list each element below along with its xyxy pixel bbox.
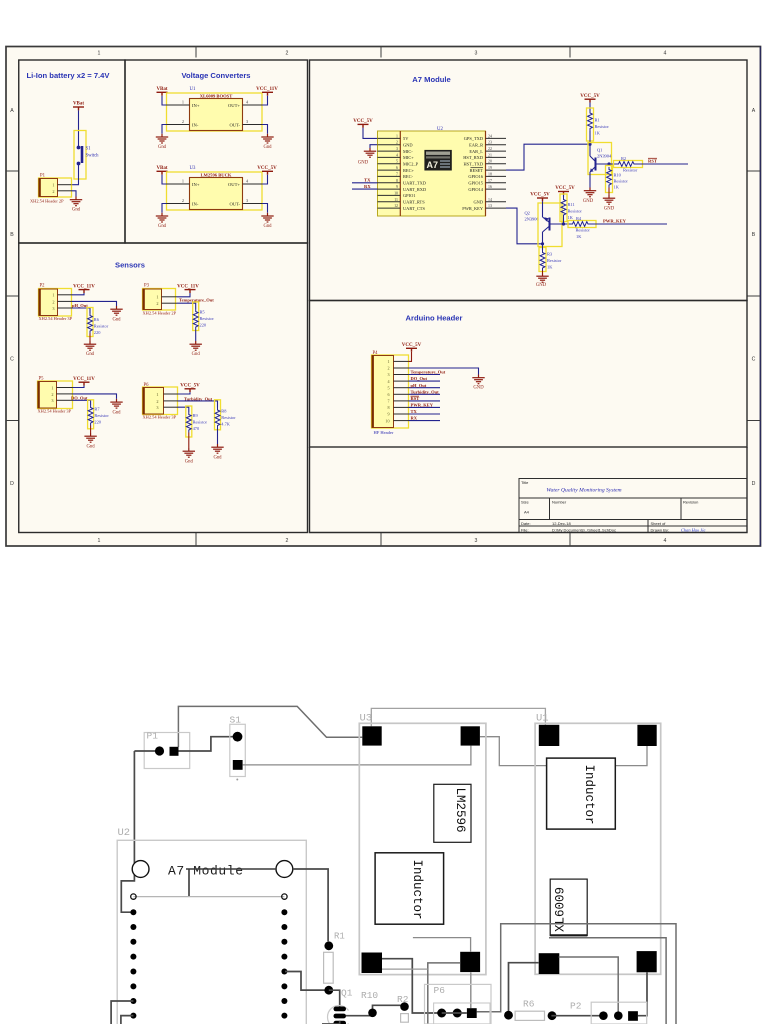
pad U1-4 (637, 951, 657, 972)
wire R1 to Q1 (589, 131, 591, 156)
svg-text:P2: P2 (570, 1001, 582, 1012)
svg-text:1: 1 (182, 100, 184, 105)
svg-text:UART_CTS: UART_CTS (403, 206, 425, 211)
svg-text:R3: R3 (547, 252, 553, 257)
svg-text:C: C (10, 357, 14, 363)
resistor R8 (215, 408, 220, 429)
ground under R5 (190, 341, 202, 350)
svg-text:GND: GND (358, 161, 369, 166)
svg-text:2: 2 (286, 538, 289, 544)
svg-text:GPIO15: GPIO15 (468, 181, 483, 186)
svg-text:Title: Title (521, 480, 529, 485)
svg-text:470: 470 (193, 426, 200, 431)
wire P4 pin3 (409, 374, 441, 376)
svg-text:12-Dec-18: 12-Dec-18 (552, 521, 571, 526)
wire P6 pin3 to R9 (178, 407, 189, 412)
svg-text:Sheet of: Sheet of (651, 521, 667, 526)
svg-text:18: 18 (488, 172, 492, 176)
zone tick right A|B (747, 170, 760, 172)
svg-text:pH_Out: pH_Out (72, 303, 88, 308)
wire VBat to U3 pin1 (162, 175, 167, 184)
silkscreen box Inductor U1 (547, 758, 616, 829)
pad P6-2 round (453, 1009, 462, 1018)
trace into P1 pad1 (134, 750, 159, 752)
pad P2-3 square (628, 1011, 638, 1021)
svg-text:VCC_11V: VCC_11V (177, 284, 199, 289)
U2 RESET overline (471, 167, 484, 169)
header P1 body (39, 179, 58, 197)
wire P4 pin9 (409, 413, 441, 415)
svg-text:R1: R1 (334, 932, 345, 942)
header P3 body (143, 289, 162, 310)
trace U1 pad3 to P2 pin2 (559, 957, 619, 1016)
header P1 pin1 stub (58, 184, 72, 186)
ground under P1 (70, 197, 82, 206)
wire P4 pin8 (409, 406, 441, 408)
svg-text:Gnd: Gnd (86, 352, 95, 357)
resistor R4 (horizontal) (570, 222, 591, 227)
svg-text:12: 12 (394, 204, 398, 208)
P6 body inner outline (434, 1003, 490, 1024)
svg-text:Temperature_Out: Temperature_Out (411, 370, 446, 375)
U2 left pin pads (130, 909, 136, 1018)
svg-text:Switch: Switch (86, 154, 100, 159)
svg-text:IN-: IN- (192, 123, 199, 128)
resistor R6 outline (515, 1011, 544, 1020)
svg-text:A: A (752, 108, 756, 114)
resistor R3 selection box (539, 248, 546, 272)
svg-text:A7 Module: A7 Module (168, 864, 244, 879)
U2 right pin stubs (486, 138, 507, 208)
svg-text:XH2.54 Header 2P: XH2.54 Header 2P (30, 199, 64, 204)
svg-text:VCC_11V: VCC_11V (256, 87, 278, 92)
XL6009 box bottom thick edge (551, 934, 588, 936)
svg-text:R10: R10 (614, 173, 622, 178)
svg-text:HST_RXD: HST_RXD (463, 155, 483, 160)
pad S1-1 round (233, 732, 243, 742)
svg-text:23: 23 (488, 141, 492, 145)
header P1 left edge (38, 179, 40, 197)
pad P6-3 square (467, 1008, 477, 1018)
svg-text:1: 1 (156, 295, 158, 300)
header P2 body (39, 289, 58, 316)
header P5 pin2 stub (57, 393, 73, 395)
svg-text:RST: RST (411, 396, 420, 401)
svg-text:Gnd: Gnd (112, 411, 121, 416)
svg-text:File:: File: (521, 527, 529, 532)
svg-text:6: 6 (387, 392, 389, 397)
header P6 pin numbers (156, 392, 158, 410)
svg-text:OUT-: OUT- (229, 202, 240, 207)
header P4 left edge (372, 356, 374, 428)
svg-text:D:\My Documents\..\Sheet1.SchD: D:\My Documents\..\Sheet1.SchDoc (552, 527, 616, 532)
pad U3-3 (362, 953, 383, 974)
svg-text:1K: 1K (614, 185, 620, 190)
component outline U2 (A7 module) (117, 840, 306, 1024)
regulator U3 selection box (167, 172, 263, 210)
svg-text:Sensors: Sensors (115, 261, 145, 270)
svg-text:VCC_11V: VCC_11V (73, 377, 95, 382)
resistor R11 (561, 197, 566, 218)
sheet inner bottom-right region line (310, 447, 748, 533)
U3 pin4 stub (243, 183, 263, 185)
header P2 pin numbers (52, 293, 54, 311)
ground under R7 (84, 433, 96, 442)
svg-text:OUT-: OUT- (229, 123, 240, 128)
wire P2 pin3 to R6 (72, 308, 91, 313)
svg-text:PWR_KEY: PWR_KEY (603, 218, 627, 223)
svg-text:3: 3 (156, 405, 158, 410)
svg-text:R10: R10 (361, 990, 378, 1001)
svg-text:REC-: REC- (403, 174, 414, 179)
svg-text:Date:: Date: (521, 521, 531, 526)
ground Q1 emitter (584, 188, 596, 197)
svg-text:VCC_5V: VCC_5V (257, 166, 277, 171)
resistor R7 selection box (88, 400, 94, 429)
trace below XL6009 (549, 938, 666, 1024)
ground U1 right (261, 134, 273, 143)
resistor R1 pad top (324, 941, 333, 950)
svg-text:XH2.54 Header 3P: XH2.54 Header 3P (38, 409, 72, 414)
svg-text:GND: GND (473, 386, 484, 391)
svg-text:2: 2 (396, 141, 398, 145)
A7 logo top band (426, 152, 450, 155)
svg-text:Gnd: Gnd (158, 145, 167, 150)
header P6 pin2 stub (164, 400, 178, 402)
zone tick bottom 2|3 (380, 533, 382, 546)
wire U3 pin2 to gnd (162, 204, 167, 213)
header P5 selection box (38, 381, 73, 409)
silkscreen box LM2596 (434, 784, 471, 842)
svg-text:UART_RTS: UART_RTS (403, 200, 425, 205)
wire P4 pin6 (409, 393, 441, 395)
zone tick right C|D (747, 420, 760, 422)
resistor R9 (186, 412, 191, 433)
ground R3 (536, 273, 548, 282)
header P3 pin1 stub (162, 296, 178, 298)
header P3 pin numbers (156, 295, 158, 307)
svg-text:PWR_KEY: PWR_KEY (462, 206, 484, 211)
svg-text:Resistor: Resistor (200, 316, 215, 321)
trace U3 pad4 upper link (413, 938, 471, 952)
pad U1-1 (539, 725, 560, 746)
junction Q1 collector node (588, 143, 591, 146)
wire Q2 base to R4 (550, 223, 571, 225)
svg-text:Turbidity_Out: Turbidity_Out (411, 389, 440, 394)
svg-text:Inductor: Inductor (582, 765, 596, 825)
wire R7 to gnd (90, 426, 92, 434)
svg-text:1: 1 (98, 51, 101, 57)
svg-text:8: 8 (396, 179, 398, 183)
U1 pin4 stub (243, 104, 263, 106)
wire RESET pin19 to Q1 collector node (506, 144, 590, 170)
ground under R9 (183, 448, 195, 457)
resistor R11 selection box (560, 194, 567, 222)
header P4 pin stubs (394, 361, 409, 420)
ground P4 (472, 375, 484, 384)
svg-text:HF Header: HF Header (374, 430, 394, 435)
U2 left pin numbers (394, 134, 398, 208)
A7 logo mid band (426, 156, 450, 158)
trace U3 pad1 to U1 pad1 top rail (371, 708, 545, 726)
svg-text:R6: R6 (523, 999, 535, 1010)
svg-text:10: 10 (394, 191, 398, 195)
Q1 pad 1 (334, 1007, 347, 1012)
A7 logo block (424, 150, 451, 171)
wire R11 to base junction (563, 218, 565, 225)
wire U1 pin3 to gnd (262, 125, 268, 134)
U2 right pin pads (281, 909, 287, 1018)
svg-text:D: D (10, 481, 14, 487)
resistor R1 pad bottom (324, 986, 333, 995)
resistor R5 selection box (193, 302, 199, 331)
svg-text:2: 2 (51, 392, 53, 397)
svg-text:XH2.54 Header 3P: XH2.54 Header 3P (39, 316, 73, 321)
transistor Q2 selection box (538, 203, 562, 247)
svg-text:8: 8 (387, 405, 389, 410)
wire TX to U2 pin8 (352, 182, 378, 184)
wire VBat to switch (78, 110, 80, 146)
U2 top inner rail (133, 896, 284, 898)
resistor R1 selection box (587, 108, 594, 141)
resistor R5 (193, 309, 198, 330)
sheet right border navy edge (759, 47, 761, 547)
svg-text:IN+: IN+ (192, 103, 200, 108)
svg-text:220: 220 (200, 323, 207, 328)
svg-text:Chan Hao Jie: Chan Hao Jie (681, 527, 705, 532)
svg-text:Gnd: Gnd (213, 456, 222, 461)
wire RX to U2 pin9 (352, 188, 378, 190)
svg-text:UART_TXD: UART_TXD (403, 181, 426, 186)
svg-text:2: 2 (387, 366, 389, 371)
junction R10 top (607, 162, 610, 165)
battery section box (19, 60, 125, 243)
svg-text:2N3906: 2N3906 (525, 217, 540, 222)
header P3 selection box (143, 289, 176, 311)
svg-text:EAR_L: EAR_L (469, 149, 483, 154)
header P6 pin1 stub (164, 393, 178, 395)
wire P6 pin1 to VCC (178, 392, 191, 394)
wire P3 pin1 to VCC (177, 293, 190, 297)
svg-text:9: 9 (396, 185, 398, 189)
wire U1 pin2 to gnd (162, 125, 167, 134)
header P1 selection box (39, 178, 72, 197)
header P5 left edge (37, 382, 39, 409)
svg-text:1: 1 (51, 385, 53, 390)
svg-text:2: 2 (182, 119, 184, 124)
svg-text:3: 3 (246, 119, 248, 124)
svg-text:11: 11 (394, 198, 398, 202)
svg-text:220: 220 (94, 420, 101, 425)
trace U3 pad3 right stub (382, 968, 428, 970)
sensors section box (19, 243, 308, 533)
svg-text:Gnd: Gnd (192, 352, 201, 357)
svg-text:A4: A4 (524, 510, 530, 515)
svg-text:4: 4 (664, 538, 667, 544)
section titles (27, 71, 463, 323)
resistor R10 (607, 167, 612, 188)
module U2 body (378, 131, 486, 216)
transistor Q1 selection box (588, 143, 612, 175)
U2 left pin stubs (378, 138, 401, 208)
wire P3 pin2 to R5 (177, 303, 196, 309)
ground R10 (603, 195, 615, 204)
svg-text:Resistor: Resistor (595, 124, 610, 129)
svg-text:14: 14 (488, 198, 492, 202)
header P6 selection box (143, 387, 178, 415)
wire R6 to gnd (89, 334, 91, 342)
svg-text:REC+: REC+ (403, 168, 415, 173)
svg-text:TX: TX (411, 409, 418, 414)
svg-text:1K: 1K (547, 265, 553, 270)
svg-text:7: 7 (387, 399, 389, 404)
resistor R10 selection box (606, 166, 613, 193)
svg-text:TX: TX (364, 178, 371, 183)
svg-text:GND: GND (536, 283, 547, 288)
svg-text:13: 13 (488, 204, 492, 208)
wire P6 pin2 to R8 (178, 401, 218, 408)
svg-text:Li-Ion battery x2 = 7.4V: Li-Ion battery x2 = 7.4V (27, 71, 111, 80)
resistor R1 (588, 111, 593, 132)
U3 pin1 stub (167, 183, 190, 185)
header P5 body (38, 382, 57, 409)
svg-text:Q1: Q1 (597, 148, 602, 153)
header P5 pin1 stub (57, 387, 73, 389)
wire R4 to PWR_KEY (591, 223, 668, 225)
svg-text:1: 1 (98, 538, 101, 544)
svg-text:pH_Out: pH_Out (411, 383, 427, 388)
trace R6 to P2 (551, 1015, 603, 1017)
ground U2 left (364, 148, 376, 157)
U2 pin hole right top (282, 894, 287, 899)
svg-text:UART_RXD: UART_RXD (403, 187, 426, 192)
resistor R9 selection box (186, 406, 192, 437)
svg-text:IN+: IN+ (192, 182, 200, 187)
zone tick bottom 3|4 (569, 533, 571, 546)
trace P1 to S1 (174, 737, 238, 751)
trace Q1 to R10 (346, 1015, 373, 1017)
trace U3 pad3 to P6 (382, 959, 442, 1013)
U2 left pin names (403, 136, 426, 211)
svg-text:VCC_11V: VCC_11V (73, 284, 95, 289)
component outline P1 (144, 733, 190, 769)
svg-text:RX: RX (411, 416, 418, 421)
svg-text:VBat: VBat (156, 166, 167, 171)
svg-text:MIC2_P: MIC2_P (403, 162, 419, 167)
resistor R7 (88, 405, 93, 426)
svg-text:Resistor: Resistor (94, 413, 109, 418)
svg-text:B: B (752, 232, 756, 238)
svg-text:2: 2 (156, 399, 158, 404)
svg-text:OUT+: OUT+ (228, 182, 240, 187)
wire VCC to R11 (563, 195, 565, 197)
svg-text:GND: GND (403, 143, 413, 148)
svg-text:Resistor: Resistor (221, 415, 236, 420)
svg-text:1K: 1K (568, 215, 574, 220)
svg-text:MIC+: MIC+ (403, 155, 414, 160)
svg-text:U2: U2 (118, 827, 131, 839)
wire P4 pin10 (409, 420, 441, 422)
svg-text:R5: R5 (200, 310, 206, 315)
component outline S1 (230, 724, 246, 776)
trace U1 pad4 to P2 (638, 972, 647, 1015)
S1 alignment dot (236, 779, 238, 781)
wire P1 pin2 to gnd (72, 191, 77, 197)
svg-text:1: 1 (387, 359, 389, 364)
header P6 left edge (142, 388, 144, 415)
wire P4 pin5 (409, 387, 441, 389)
header P2 pin3 stub (58, 307, 72, 309)
svg-text:Gnd: Gnd (72, 208, 81, 213)
regulator U3 body (190, 178, 243, 210)
arduino header section box (310, 301, 748, 448)
junction Q2 collector and R3 (541, 242, 544, 245)
trace U3 pad2 to U1 pad2 (480, 737, 647, 766)
wire P4 pin2 to gnd (409, 368, 479, 375)
wire P5 pin3 to R7 (73, 400, 91, 405)
svg-text:4: 4 (396, 153, 398, 157)
svg-text:3: 3 (475, 51, 478, 57)
svg-text:R6: R6 (94, 317, 100, 322)
svg-text:220: 220 (94, 330, 101, 335)
svg-text:P6: P6 (434, 985, 446, 996)
svg-text:2: 2 (182, 198, 184, 203)
svg-text:R1: R1 (595, 118, 600, 123)
junction R11 bottom (562, 222, 565, 225)
trace U1 pad3 to R6 (509, 963, 539, 1015)
svg-text:2: 2 (156, 301, 158, 306)
zone tick top 1|2 (195, 47, 197, 58)
U2 mounting hole left (132, 861, 149, 878)
svg-text:1: 1 (182, 179, 184, 184)
svg-text:VCC_5V: VCC_5V (580, 94, 600, 99)
svg-text:Arduino Header: Arduino Header (406, 314, 463, 323)
svg-text:P2: P2 (40, 284, 46, 289)
trace P1 down to U2 pad (121, 751, 134, 912)
schematic sheet background (6, 47, 761, 547)
U1 pin1 stub (167, 104, 190, 106)
pad P2-1 round (599, 1011, 608, 1020)
header P4 selection box (372, 355, 409, 428)
svg-text:DO_Out: DO_Out (411, 376, 428, 381)
header P3 left edge (142, 289, 144, 310)
svg-text:1: 1 (52, 183, 54, 188)
trace R10 to R2 (373, 1005, 405, 1013)
svg-text:Gnd: Gnd (263, 224, 272, 229)
header P2 pin1 stub (58, 294, 72, 296)
svg-text:A7 Module: A7 Module (412, 75, 450, 84)
switch S1 selection box (74, 131, 86, 180)
wire Q2 to R3 (542, 244, 544, 250)
svg-text:4: 4 (387, 379, 389, 384)
header P2 pin2 stub (58, 300, 72, 302)
svg-text:VCC_5V: VCC_5V (353, 119, 373, 124)
ground U3 right (261, 213, 273, 222)
wire P5 pin1 to VCC (73, 386, 85, 388)
resistor R6 (88, 313, 93, 334)
pad R2 round (400, 1002, 409, 1011)
svg-text:R7: R7 (94, 407, 100, 412)
svg-text:Revision: Revision (683, 500, 698, 505)
svg-text:VCC_5V: VCC_5V (180, 384, 200, 389)
svg-text:10: 10 (385, 418, 389, 423)
svg-text:5: 5 (396, 160, 398, 164)
trace U2 left pad7 exit (111, 1001, 133, 1024)
resistor R6 selection box (87, 308, 93, 337)
pad P2-2 round (614, 1011, 623, 1020)
svg-text:Gnd: Gnd (158, 224, 167, 229)
svg-text:LM2596 BUCK: LM2596 BUCK (200, 173, 231, 178)
